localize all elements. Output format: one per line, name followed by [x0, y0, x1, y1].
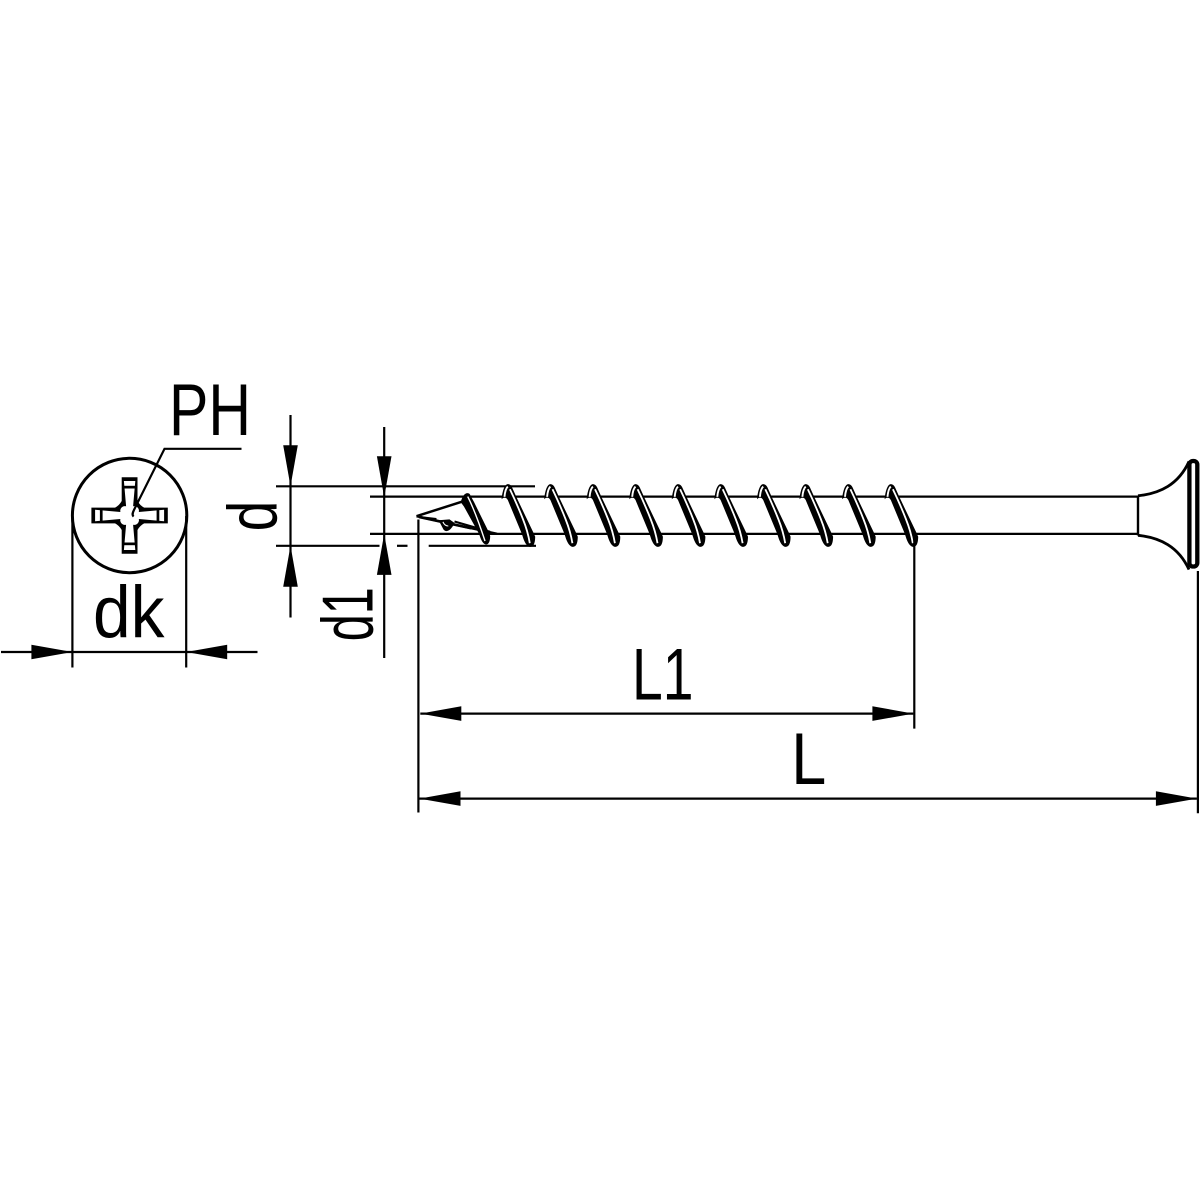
thread turn 1 — [502, 484, 536, 547]
thread OD top reference line (d) — [276, 485, 535, 487]
head/shank junction line — [1137, 496, 1139, 536]
tip partial thread top fin and flank band — [461, 493, 490, 544]
dk arrowhead right — [186, 645, 227, 660]
d dimension line — [289, 415, 291, 618]
d arrowhead down — [283, 445, 298, 486]
extension line left of head circle (dk) — [71, 516, 73, 668]
d1 arrowhead down — [377, 456, 392, 497]
svg-text:d: d — [214, 501, 292, 532]
d1 arrowhead up — [377, 534, 392, 575]
extension line thread end (L1) — [913, 537, 915, 729]
tip flank line to first root — [455, 522, 491, 532]
thread turn 10 — [885, 484, 919, 547]
svg-text:L1: L1 — [632, 633, 694, 716]
thread OD bottom reference dash — [397, 545, 408, 547]
tip point wedge — [416, 516, 436, 521]
core/shank bottom line (d1 ref) — [370, 533, 1138, 535]
extension line from screw tip (L/L1) — [417, 520, 419, 813]
phillips recess PH cross — [91, 477, 167, 553]
L arrowhead right — [1156, 791, 1197, 806]
svg-text:d1: d1 — [308, 587, 388, 641]
thread turn 3 — [587, 484, 621, 547]
core/shank top line (d1 ref) — [370, 495, 1138, 497]
d arrowhead up — [283, 546, 298, 587]
tip partial thread bottom fin — [439, 519, 455, 531]
tip inner flank line — [419, 517, 471, 528]
dk dimension line — [1, 651, 258, 653]
thread turn 9 — [842, 484, 876, 547]
dk arrowhead left — [31, 645, 72, 660]
L dimension line — [420, 797, 1197, 799]
svg-text:L: L — [791, 717, 826, 800]
thread OD bottom reference line left segment (d) — [276, 545, 380, 547]
thread OD bottom tangent segment — [429, 545, 536, 547]
head flare bottom curve — [1138, 535, 1189, 569]
screw tip cone bottom edge — [417, 516, 498, 534]
thread turn 2 — [544, 484, 578, 547]
L1 arrowhead left — [420, 706, 461, 721]
thread turn 4 — [629, 484, 663, 547]
thread turn 7 — [757, 484, 791, 547]
svg-text:dk: dk — [93, 570, 165, 653]
head top cap (rounded bar) — [1189, 461, 1197, 567]
svg-text:PH: PH — [169, 368, 251, 451]
leader line from PH label — [133, 449, 242, 517]
extension line right of head circle (dk) — [185, 516, 187, 668]
thread turn 6 — [714, 484, 748, 547]
screw head circle (top view) — [72, 458, 186, 572]
extension line head end (L) — [1197, 571, 1199, 813]
screw tip cone top edge — [417, 501, 464, 516]
L1 dimension line — [420, 712, 913, 714]
head flare top curve — [1138, 462, 1189, 496]
L1 arrowhead right — [872, 706, 913, 721]
thread turn 5 — [672, 484, 706, 547]
L arrowhead left — [420, 791, 461, 806]
thread turn 8 — [800, 484, 834, 547]
d1 dimension line — [383, 427, 385, 658]
